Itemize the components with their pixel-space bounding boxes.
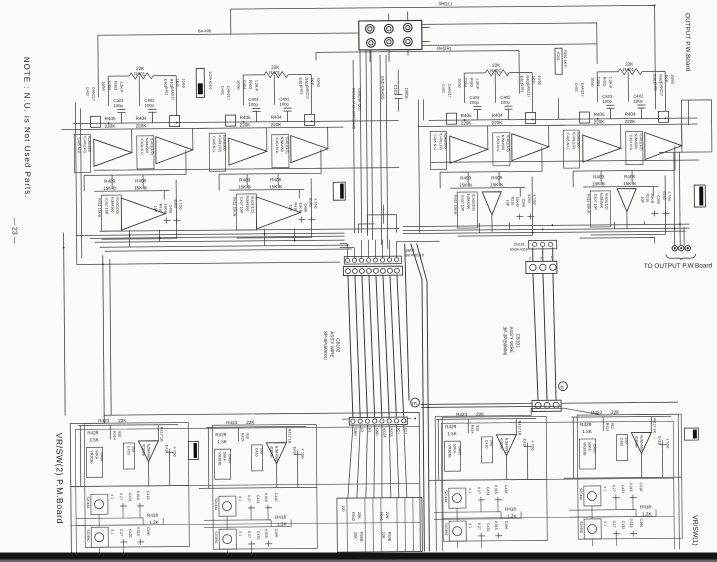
channel 3 block IC301 xyxy=(196,64,345,238)
bus lines left xyxy=(77,233,345,235)
jack circle xyxy=(403,23,412,32)
wire ch2-ch1 connect rows xyxy=(423,98,558,120)
wire jack pin stubs xyxy=(370,11,430,62)
junction E xyxy=(411,398,420,407)
channel 2 block VR/SW board right xyxy=(428,411,547,548)
board VR/SW(1) outline xyxy=(435,407,679,551)
svg-text:GND: GND xyxy=(353,428,357,436)
svg-text:CB101: CB101 xyxy=(515,334,520,349)
jack circle xyxy=(384,24,393,33)
connector CN101 xyxy=(510,240,557,251)
svg-text:R4: R4 xyxy=(367,428,371,433)
R94x resistor board content xyxy=(341,498,413,553)
svg-text:22K: 22K xyxy=(381,532,385,539)
svg-text:0H(2R): 0H(2R) xyxy=(437,46,452,51)
bus lines right xyxy=(403,224,690,227)
bottom black strip xyxy=(0,553,717,560)
wire to junction E xyxy=(342,418,411,421)
svg-text:ASS'Y WIRE: ASS'Y WIRE xyxy=(509,327,514,353)
ribbon CB101 wires xyxy=(533,247,556,400)
capacitor C101 xyxy=(394,70,402,112)
svg-text:100: 100 xyxy=(341,505,345,511)
svg-text:8P-8P(60mm): 8P-8P(60mm) xyxy=(323,331,328,360)
svg-text:CB102: CB102 xyxy=(335,338,340,353)
wire bus below CB101 xyxy=(421,402,678,407)
wire xyxy=(422,23,597,66)
output connector circles xyxy=(666,245,696,260)
svg-text:3: 3 xyxy=(540,256,542,260)
channel 3 block VR/SW board left xyxy=(198,419,317,556)
wire xyxy=(98,33,360,97)
op-amp IC102A third stage ch1 xyxy=(617,188,671,228)
svg-text:GW629K QLD: GW629K QLD xyxy=(357,88,361,111)
jack circle xyxy=(385,37,394,46)
svg-text:E201: E201 xyxy=(556,52,560,60)
wire pin stubs xyxy=(340,239,440,258)
channel 2 block IC201 xyxy=(417,62,566,236)
connector CB102 bottom xyxy=(342,417,411,425)
svg-text:GND: GND xyxy=(375,428,379,436)
svg-text:BA-406: BA-406 xyxy=(198,28,212,33)
svg-text:A(O)A: A(O)A xyxy=(382,428,386,438)
svg-text:SN04-4316: SN04-4316 xyxy=(510,248,528,252)
brace xyxy=(666,254,696,260)
svg-text:R95B: R95B xyxy=(359,532,363,542)
svg-text:NOTE : N.U. is Not Used Parts.: NOTE : N.U. is Not Used Parts. xyxy=(22,57,32,199)
svg-text:22K: 22K xyxy=(357,512,361,519)
jack circle xyxy=(365,25,374,34)
svg-text:TO OUTPUT P.W.Board: TO OUTPUT P.W.Board xyxy=(644,262,713,270)
cross wires between channel rows xyxy=(93,97,699,247)
tag IC301 INPUT AMP vertical xyxy=(333,182,345,200)
svg-text:0H(1L): 0H(1L) xyxy=(439,1,453,6)
channel 4 block VR/SW board left xyxy=(70,417,189,554)
wires fanning to R94x board xyxy=(347,425,407,499)
svg-text:GND CHASS: GND CHASS xyxy=(380,76,385,100)
channel 1 block IC101 xyxy=(550,61,699,235)
wire under channels xyxy=(100,229,400,232)
svg-text:22K: 22K xyxy=(385,512,389,519)
svg-text:— 23 —: — 23 — xyxy=(10,218,17,244)
connector CN601 top row xyxy=(340,239,440,264)
ribbon CB102 wires xyxy=(348,243,430,552)
board divider lines xyxy=(71,483,420,486)
svg-text:m: m xyxy=(412,401,417,407)
op-amp IC402A third stage ch4 xyxy=(121,198,182,231)
wire gap fill 220K row xyxy=(344,120,399,122)
wire channel drops xyxy=(130,221,645,246)
svg-text:L3: L3 xyxy=(360,428,364,432)
connector CB101 bottom xyxy=(532,400,561,411)
tag IC101 GAIN xyxy=(684,428,698,440)
wire top 0H(1L) xyxy=(231,5,656,113)
channel 4 block IC401 xyxy=(61,65,210,239)
wire 0H(2R) xyxy=(316,51,519,96)
wire long row 220K xyxy=(94,160,699,170)
svg-text:A(O)L: A(O)L xyxy=(389,428,393,437)
svg-text:n: n xyxy=(560,385,563,391)
pin labels under CB102 bottom xyxy=(353,428,408,439)
bus convergence box xyxy=(357,99,419,233)
svg-text:RCA91 JACK 30P(S)/63B: RCA91 JACK 30P(S)/63B xyxy=(351,88,355,130)
svg-text:302/9 IC401: 302/9 IC401 xyxy=(208,71,212,90)
svg-text:ASS'Y WIRE: ASS'Y WIRE xyxy=(329,331,334,357)
op-amp IC102B third stage ch2 xyxy=(482,191,536,231)
svg-text:22K: 22K xyxy=(353,532,357,539)
junction C xyxy=(558,382,567,391)
connector CB102 top xyxy=(343,266,402,276)
R94x board outline xyxy=(337,497,422,552)
svg-text:R942: R942 xyxy=(351,512,355,521)
board VR/SW(2) outline xyxy=(70,412,420,554)
svg-text:R202 1K-F: R202 1K-F xyxy=(563,50,567,68)
svg-text:OUTPUT P.W.Board: OUTPUT P.W.Board xyxy=(684,13,692,72)
resistor box R201 1K xyxy=(555,48,562,74)
jack circle xyxy=(404,37,413,46)
wire xyxy=(230,9,232,34)
connector J601 xyxy=(198,1,453,63)
left feed wires xyxy=(64,233,66,416)
wire left vertical pair xyxy=(75,100,339,264)
tag IC303 GAIN xyxy=(188,441,198,459)
svg-text:VR/SW(2) P.M.Board: VR/SW(2) P.M.Board xyxy=(54,433,65,524)
wire right verticals to output connector xyxy=(673,152,676,245)
wire middle verticals from jack xyxy=(353,60,355,233)
op-amp IC302A third stage ch3 xyxy=(256,196,317,229)
svg-text:2: 2 xyxy=(529,256,531,260)
svg-text:3P-3P(50MM): 3P-3P(50MM) xyxy=(502,327,507,356)
svg-text:C101: C101 xyxy=(393,85,398,95)
svg-text:1000p: 1000p xyxy=(404,88,409,100)
svg-text:CN101: CN101 xyxy=(514,243,525,247)
tag IC401 INPUT AMP xyxy=(196,68,212,97)
wire loop box right of ch1 xyxy=(658,100,711,152)
connector CB101 top xyxy=(526,255,557,273)
wires inside xyxy=(347,498,413,553)
svg-text:R93B: R93B xyxy=(387,532,391,542)
tag IC101 INPUT AMP vertical xyxy=(694,185,705,207)
svg-text:VR/SW(1): VR/SW(1) xyxy=(691,515,698,546)
jack circle xyxy=(367,39,376,48)
wire xyxy=(422,44,597,46)
channel 1 block VR/SW board right xyxy=(563,409,682,546)
